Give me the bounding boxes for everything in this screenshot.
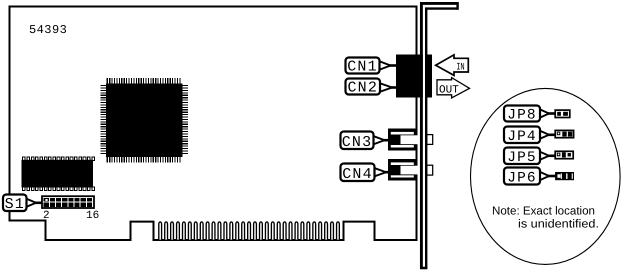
svg-text:S1: S1 [5, 196, 25, 213]
DIP chip U2 body [22, 160, 94, 188]
QFP chip U1 left pins [101, 86, 107, 154]
DIP chip U2 top pins [23, 157, 26, 160]
QFP chip U1 body [106, 84, 183, 158]
CN4 barrel protruding through bracket [427, 165, 433, 175]
svg-text:Note: Exact location: Note: Exact location [492, 204, 595, 217]
bracket top end cap [456, 2, 458, 10]
CN4 white slot bottom [391, 175, 414, 177]
DIP switch S1 cells [44, 198, 49, 202]
svg-text:IN: IN [456, 62, 465, 73]
mounting bracket inner line [426, 9, 457, 268]
jumper JP5 block [555, 151, 573, 158]
CN4 center opening [401, 166, 420, 175]
ellipse (unlocated jumpers region) [471, 88, 621, 264]
CN3 white slot top [391, 132, 414, 135]
connector CN3 body [388, 129, 417, 151]
callout CN2 [346, 79, 397, 97]
CN3 center opening [401, 135, 420, 144]
callout CN3 [341, 132, 390, 151]
connector CN1/CN2 block (dual jack through bracket) [396, 55, 432, 98]
CN3 barrel protruding through bracket [427, 135, 433, 145]
callout JP6 [504, 168, 556, 187]
callout JP4 [504, 127, 556, 145]
svg-text:OUT: OUT [439, 85, 459, 97]
CN3 white slot bottom [391, 145, 414, 148]
svg-text:JP4: JP4 [507, 129, 536, 145]
svg-text:54393: 54393 [29, 23, 67, 37]
QFP chip U1 right pins [182, 86, 188, 154]
connector CN4 body [388, 159, 417, 181]
QFP chip U1 top pins [107, 78, 180, 83]
svg-text:CN4: CN4 [342, 166, 373, 183]
callout JP8 [504, 106, 556, 124]
svg-text:16: 16 [86, 210, 99, 222]
svg-text:is unidentified.: is unidentified. [518, 217, 599, 230]
svg-text:JP6: JP6 [507, 170, 536, 186]
callout CN4 [341, 164, 390, 183]
svg-text:JP5: JP5 [507, 150, 536, 166]
callout JP5 [504, 148, 556, 166]
edge connector gold fingers [159, 222, 340, 240]
callout CN1 [346, 58, 397, 76]
OUT arrow (signal out of card) [437, 78, 470, 98]
svg-text:2: 2 [43, 210, 50, 222]
bracket gap white stripe over connector [423, 55, 425, 98]
DIP switch S1 body [42, 196, 94, 208]
mounting bracket outer line [421, 3, 457, 268]
svg-text:CN2: CN2 [347, 79, 378, 96]
CN4 white slot top [391, 162, 414, 165]
jumper JP8 block [555, 110, 570, 117]
DIP chip U2 bottom pins [23, 187, 26, 190]
card outline (PCB edge with connector tab notches) [10, 7, 417, 241]
IN arrow (signal into card) [436, 55, 469, 76]
callout S1 [3, 195, 43, 213]
svg-text:CN3: CN3 [342, 134, 373, 151]
svg-text:JP8: JP8 [507, 107, 536, 123]
jumper JP4 block [555, 130, 573, 137]
svg-text:CN1: CN1 [347, 58, 378, 75]
jumper JP6 block [555, 172, 574, 180]
QFP chip U1 bottom pins [107, 157, 180, 162]
bracket bottom end cap [420, 267, 427, 270]
